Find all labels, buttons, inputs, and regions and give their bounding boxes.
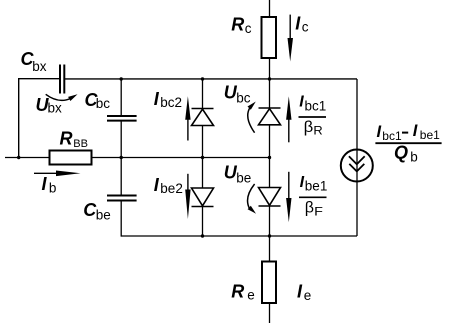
svg-text:bc1: bc1	[382, 129, 402, 143]
capacitor Cbe	[107, 196, 137, 201]
svg-text:R: R	[231, 281, 244, 301]
arrow Ibc1	[286, 96, 291, 142]
svg-text:I: I	[154, 89, 160, 109]
wire top rail left segment	[18, 78, 59, 80]
resistor Rc	[262, 17, 277, 58]
wire diode branch D2 mid-upper	[202, 126, 204, 158]
wire middle rail (base node)	[5, 157, 270, 159]
svg-text:β: β	[305, 199, 314, 216]
svg-text:bc: bc	[96, 96, 111, 111]
wire diode branch D2 bottom	[202, 207, 204, 237]
wire diode branch D2 top	[202, 79, 204, 109]
svg-text:β: β	[304, 119, 314, 136]
wire emitter terminal	[269, 303, 271, 323]
wire diode branch D1 mid-upper	[269, 125, 271, 158]
diode Dbc1 (points up)	[259, 108, 281, 125]
svg-text:bx: bx	[48, 101, 63, 116]
arrow Ic	[288, 15, 294, 62]
svg-text:b: b	[49, 180, 57, 195]
label Ib	[42, 174, 57, 195]
svg-text:e: e	[247, 288, 255, 303]
svg-text:be: be	[236, 171, 251, 186]
resistor RBB	[50, 151, 92, 165]
diode Dbe1 (points down)	[259, 188, 281, 207]
label Ubc	[224, 82, 251, 105]
svg-text:I: I	[413, 122, 418, 140]
node dot Cbc bottom	[120, 156, 123, 159]
label Ibc2	[154, 89, 182, 110]
wire collector terminal	[269, 0, 271, 17]
wire Cbc branch upper	[120, 79, 122, 115]
wire left vertical	[18, 78, 20, 158]
capacitor Cbc	[107, 116, 137, 121]
curved arrow Ubx	[46, 94, 78, 101]
svg-text:R: R	[60, 128, 73, 148]
wire Cbe branch lower	[120, 202, 122, 237]
diode Dbe2 (points down)	[192, 188, 214, 207]
node dot D2 top	[201, 77, 204, 80]
arrow Ib	[34, 171, 81, 177]
node dot D1 bottom	[268, 234, 271, 237]
svg-text:c: c	[245, 21, 252, 36]
wire diode branch D1 mid-lower	[269, 158, 271, 188]
svg-text:be1: be1	[420, 128, 440, 142]
svg-text:R: R	[313, 124, 323, 138]
svg-text:c: c	[302, 20, 309, 35]
svg-text:Q: Q	[394, 143, 408, 163]
svg-text:BB: BB	[73, 138, 88, 150]
label Ube	[224, 163, 252, 186]
label Cbx	[21, 49, 47, 74]
svg-text:bx: bx	[32, 59, 47, 74]
wire top rail right segment	[65, 78, 357, 80]
label RBB	[60, 128, 88, 150]
wire Cbe branch upper	[120, 158, 122, 195]
resistor Re	[262, 262, 276, 304]
wire bottom rail (emitter node)	[121, 235, 357, 237]
wire diode branch D1 bottom	[269, 206, 271, 236]
svg-text:I: I	[377, 123, 382, 141]
svg-text:bc: bc	[236, 91, 251, 106]
wire Cbc branch lower	[120, 122, 122, 158]
label Ibe2	[154, 175, 183, 196]
wire Rc to top rail	[269, 58, 271, 79]
node dot D2 bottom	[201, 234, 204, 237]
label fraction Ibe1/betaF	[299, 174, 327, 219]
wire right branch (current source)	[356, 79, 358, 236]
svg-text:be1: be1	[305, 178, 328, 193]
capacitor Cbx	[60, 65, 64, 94]
diode Dbc2 (points up)	[192, 109, 214, 126]
svg-text:I: I	[154, 175, 160, 195]
label Re	[231, 281, 254, 302]
svg-text:I: I	[42, 174, 48, 194]
label Ubx	[36, 95, 63, 116]
label Cbe	[83, 200, 111, 223]
node dot D2 mid	[201, 156, 204, 159]
svg-text:I: I	[297, 281, 303, 301]
arrow Ibe1	[286, 172, 291, 222]
label Rc	[231, 15, 252, 36]
curved arrow Ubc	[248, 102, 256, 133]
wire diode branch D1 top	[269, 79, 271, 108]
arrow Ibe2	[185, 174, 190, 219]
label Ie	[297, 281, 311, 303]
label fraction (Ibc1-Ibe1)/Qb	[375, 122, 441, 165]
current source double arrow chevrons	[349, 156, 365, 171]
label fraction Ibc1/betaR	[299, 94, 327, 138]
svg-text:bc2: bc2	[160, 95, 182, 110]
svg-text:be: be	[96, 208, 111, 223]
arrow Ibc2	[185, 96, 190, 140]
label Cbc	[85, 90, 111, 111]
svg-text:b: b	[410, 150, 418, 165]
curved arrow Ube	[248, 184, 256, 214]
node dot D1 mid	[268, 156, 271, 159]
svg-text:I: I	[295, 14, 301, 34]
wire diode branch D2 mid-lower	[202, 158, 204, 189]
node dot Cbc top	[120, 77, 123, 80]
node dot D1 top	[268, 77, 271, 80]
label Ic	[295, 14, 309, 35]
node dot base-left	[17, 156, 20, 159]
wire bottom rail to Re	[269, 236, 271, 262]
svg-text:F: F	[314, 205, 323, 219]
svg-text:e: e	[304, 288, 312, 303]
svg-text:R: R	[231, 15, 244, 35]
svg-text:bc1: bc1	[305, 99, 327, 114]
current source Qb circle	[341, 150, 373, 182]
svg-text:be2: be2	[160, 181, 183, 196]
